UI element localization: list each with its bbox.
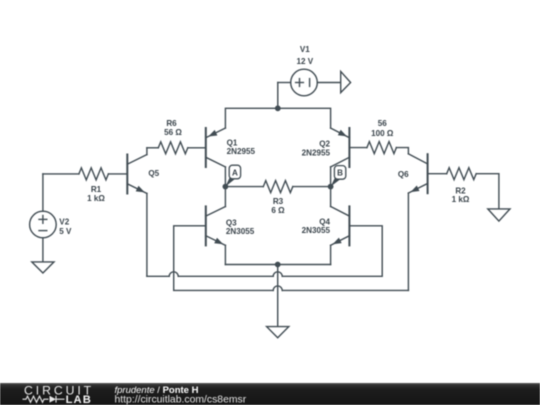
wire V1 to top rail <box>277 83 279 109</box>
svg-text:V1: V1 <box>300 45 310 54</box>
svg-text:Q2: Q2 <box>319 140 330 149</box>
footer title text <box>115 385 247 405</box>
svg-text:Q5: Q5 <box>148 169 159 178</box>
Q3 label <box>226 218 255 236</box>
resistor R6 <box>147 142 206 154</box>
svg-text:Q6: Q6 <box>398 170 409 179</box>
svg-text:LAB: LAB <box>66 394 92 405</box>
node A junction <box>223 184 229 190</box>
svg-text:2N2955: 2N2955 <box>302 149 331 158</box>
CircuitLab logo <box>24 383 94 405</box>
resistor R1 <box>43 168 127 180</box>
Q4 label <box>302 217 331 235</box>
logo squiggle <box>23 396 65 403</box>
transistor Q2 <box>331 128 350 187</box>
transistor Q1 <box>206 128 226 187</box>
voltage source V1 <box>278 69 341 96</box>
node A flag <box>225 165 240 186</box>
svg-text:B: B <box>337 169 343 178</box>
voltage source V2 <box>30 174 57 262</box>
svg-text:Q4: Q4 <box>319 217 330 226</box>
R6 value label <box>164 119 182 137</box>
svg-text:V2: V2 <box>59 218 69 227</box>
svg-text:R1: R1 <box>91 185 102 194</box>
V1 value label <box>296 45 313 66</box>
ground below V2 <box>32 262 54 273</box>
Q5 label <box>148 169 159 178</box>
V2 value label <box>59 218 72 236</box>
R2 value label <box>452 187 470 205</box>
svg-text:1 kΩ: 1 kΩ <box>452 195 470 204</box>
junction bottom rail <box>275 262 281 268</box>
wire bottom rail to ground <box>277 265 279 327</box>
ground below R2 <box>488 209 510 221</box>
svg-text:12 V: 12 V <box>296 57 313 66</box>
resistor 56 (100 ohm) <box>349 142 408 154</box>
ground bottom <box>267 327 289 338</box>
svg-text:Q3: Q3 <box>226 218 237 227</box>
svg-text:R6: R6 <box>166 119 177 128</box>
wire Q5 emitter to Q4 base (wire A) <box>147 193 382 276</box>
junction top rail <box>275 105 281 111</box>
svg-text:2N2955: 2N2955 <box>227 147 256 156</box>
transistor Q5 <box>127 148 147 194</box>
transistor Q4 <box>331 187 350 265</box>
svg-text:2N3055: 2N3055 <box>226 227 255 236</box>
svg-text:1 kΩ: 1 kΩ <box>87 194 105 203</box>
Q1 label <box>227 139 256 156</box>
wire Q6 emitter to Q3 base (wire B) <box>174 193 409 290</box>
svg-text:56 Ω: 56 Ω <box>164 128 182 137</box>
svg-text:R3: R3 <box>273 197 284 206</box>
svg-text:5 V: 5 V <box>59 227 72 236</box>
net flag (output of V1) <box>341 71 351 92</box>
transistor Q6 <box>408 154 427 193</box>
node B flag <box>331 166 346 187</box>
transistor Q3 <box>206 187 226 265</box>
node B junction <box>328 184 334 190</box>
resistor R3 <box>225 181 330 193</box>
resistor R2 <box>428 168 499 209</box>
56 value label <box>371 119 394 138</box>
svg-text:100 Ω: 100 Ω <box>371 129 394 138</box>
Q2 label <box>302 140 331 158</box>
wire bottom rail <box>225 264 330 266</box>
R3 value label <box>271 197 285 215</box>
svg-text:2N3055: 2N3055 <box>302 226 331 235</box>
svg-text:6 Ω: 6 Ω <box>271 206 285 215</box>
svg-text:A: A <box>232 168 238 177</box>
R1 value label <box>87 185 105 203</box>
Q6 label <box>398 170 409 179</box>
wire top rail <box>225 108 330 128</box>
svg-text:56: 56 <box>378 119 388 128</box>
svg-text:http://circuitlab.com/cs8emsr: http://circuitlab.com/cs8emsr <box>115 394 247 405</box>
